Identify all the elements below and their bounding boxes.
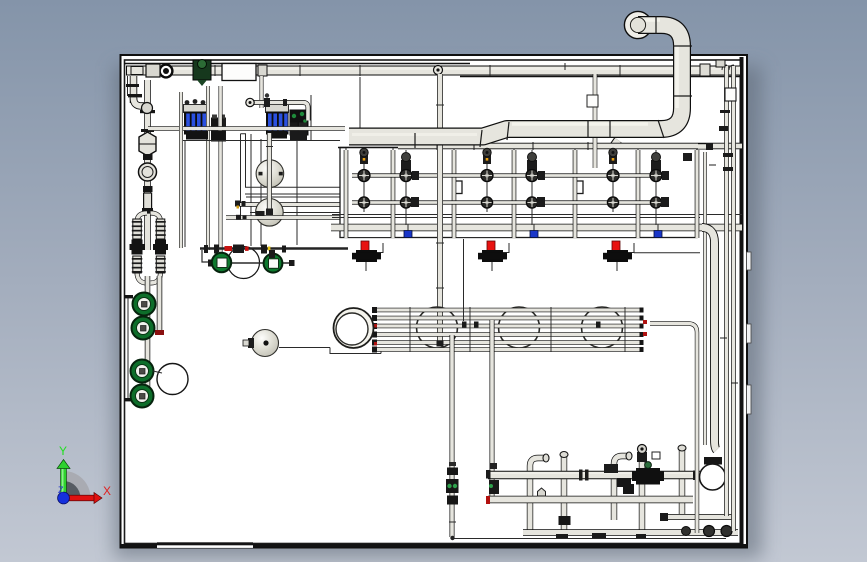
svg-text:X: X (103, 484, 111, 498)
dark dashes along bottom run (556, 513, 668, 538)
red-top black valves below frame (352, 241, 700, 271)
plate inner border line (125, 60, 743, 544)
red X arrow (64, 493, 103, 504)
plate bottom edge thick line (121, 544, 747, 547)
wire: thin bottom line (452, 538, 726, 540)
small box near x595 (587, 95, 598, 107)
pipe: vertical x734.5 (731, 66, 736, 531)
sphere S2 (256, 199, 284, 227)
valve top stack (360, 155, 368, 164)
wire: long thin pipe in front of manifolds (148, 126, 345, 131)
white junction box on top run (222, 64, 256, 81)
seam ticks right columns (709, 165, 738, 383)
pipe: vertical x614 with elbow top (614, 456, 628, 520)
svg-text:Y: Y (59, 444, 67, 458)
pipe: vertical feeds down from top run (206, 86, 210, 250)
pipe: bottom run H3 (523, 529, 738, 535)
pipe: top rail (338, 147, 400, 149)
elbow into left border (134, 98, 150, 106)
stub from P3 to T1 (153, 371, 162, 373)
wire from S3 to bundle (279, 347, 330, 349)
wire: seams on top run (215, 63, 620, 76)
gray sector dark (64, 481, 81, 498)
pipe: horizontal H1 (488, 471, 700, 479)
pipe: lower rail thick (331, 224, 742, 232)
seam ticks on tubes (410, 307, 625, 352)
six bundle tubes (375, 310, 641, 350)
round valve V2 on left vertical (139, 163, 157, 181)
bottom border step (157, 542, 253, 545)
dark cylinder pair right of M1 (211, 115, 226, 142)
pipe: y204 (240, 202, 346, 206)
pipe: lower rail thin (332, 214, 742, 216)
small stub under big pipe (611, 140, 618, 150)
coil circles (417, 307, 458, 348)
fitting bottom of x564 (559, 516, 571, 525)
pump green cluster G0 on top run (193, 60, 211, 87)
pipe: vertical x594 (593, 74, 598, 168)
section 1 valves (352, 148, 668, 225)
green Y arrow (57, 460, 70, 499)
pipe: left long vertical (144, 80, 151, 250)
pipe: vertical through spheres (267, 133, 272, 212)
valve fittings left ends (235, 201, 247, 220)
valve above PP2 (269, 250, 275, 258)
valve stack on x452 (446, 468, 459, 505)
pipe: horizontal H2 (488, 496, 693, 504)
pipe: verticals through green pump column (145, 276, 151, 401)
wire: top rail thin line (124, 63, 470, 65)
green pump P4 (131, 385, 154, 408)
H1 right end cap (693, 471, 699, 481)
pipe: vertical x642 with valve top (639, 462, 645, 533)
green pump P2 (132, 317, 155, 340)
wire: vertical x360 (359, 77, 361, 144)
dark rows below pipe (186, 131, 208, 140)
green pump PP2 (264, 254, 283, 273)
base plate (121, 55, 748, 548)
pipe: vertical x492 (490, 320, 495, 500)
pipe: M2 feed assembly (250, 103, 308, 121)
fittings on feed (264, 98, 270, 107)
small fitting on H2 (538, 488, 546, 496)
green pump P3 (131, 360, 154, 383)
pipe: y217.5 through S2 (226, 215, 346, 220)
flange F1 on top run (158, 63, 173, 78)
box left-edge notches (453, 181, 462, 194)
ring flange left of bundle (334, 308, 374, 348)
stubs to blue squares (407, 224, 409, 231)
blue Z origin ball (58, 492, 70, 504)
plate drop shadow (114, 66, 762, 558)
dark valves mid-loop (132, 240, 143, 255)
dark elbow valve between H1/H2 (617, 478, 631, 487)
svg-text:Z: Z (58, 485, 64, 495)
pipe: top horizontal run (126, 66, 740, 76)
pipe: bundle line elbow down x697 (650, 324, 697, 534)
small sphere S3 with line (252, 330, 279, 357)
fitting cluster left of F1 (146, 64, 160, 77)
pump circle PR (700, 464, 726, 490)
pipe: wide vertical x714 from rail elbow to pump (702, 228, 717, 451)
wire seams on x440 (436, 104, 444, 106)
right edge notch tabs (747, 324, 752, 343)
yellow accent (268, 247, 271, 251)
pipe: vertical x564 (561, 456, 567, 533)
top-right small components (725, 88, 736, 101)
gray sector light (64, 471, 91, 498)
pipe: vertical x682 (679, 450, 685, 517)
pipe: long vertical x440 (437, 74, 443, 344)
wire: small line left of pumps (127, 298, 129, 400)
big pipe: flange + elbows + vertical + long run to left (57, 11, 738, 540)
section 2 valves (481, 148, 545, 225)
flange above pump circle (704, 457, 722, 465)
wires: thin pipes to frame (240, 134, 242, 217)
red dots right end (643, 320, 647, 324)
valve with handwheel at top of x642 (637, 452, 647, 462)
dark fitting on H1 right (604, 464, 618, 473)
green pump P1 (133, 293, 156, 316)
fittings on assembly line (204, 245, 286, 254)
pipe: vertical x723.5 (724, 66, 729, 516)
flange marks on H1 (579, 470, 583, 481)
open circle between pumps (228, 247, 260, 279)
weld seams on big pipe (415, 16, 692, 148)
blue manifold M2 (266, 105, 289, 135)
plate right edge dark bar (740, 57, 744, 546)
wire: thin assembly line (200, 247, 348, 249)
L-connector left (202, 250, 212, 262)
handwheels row2 (358, 197, 369, 208)
small fittings right of box (258, 65, 267, 76)
pipe: H4 (660, 514, 734, 520)
green pump PP1 (212, 253, 231, 272)
open circle tank T1 (157, 364, 188, 395)
blue squares on lower rail (404, 231, 412, 238)
dark caps bottom (704, 526, 715, 537)
elbow tops curving left (722, 65, 734, 70)
flange dashes on left verticals (126, 84, 155, 132)
pipe: thin vertical x705 (703, 152, 707, 445)
hex valve V1 on left vertical (139, 132, 156, 156)
cap on elbow (543, 454, 549, 462)
frame vertical pipes (346, 150, 697, 238)
end caps (372, 307, 644, 353)
dark X-valve on H1 (632, 462, 664, 485)
frame boxes (340, 148, 697, 238)
wires: verticals from manifolds down (184, 140, 186, 247)
wire: vertical x463 rail to bundle (463, 239, 465, 321)
flange circle on feed (246, 98, 254, 106)
dark/green cluster right of M2 (290, 110, 309, 137)
section 3 valves (607, 148, 669, 225)
wire: line under manifold rows (183, 140, 340, 142)
pipe: stub into frame rail (698, 144, 712, 150)
pipe: vertical x452 (450, 335, 455, 537)
red cap left ends (486, 470, 491, 479)
pipe segment below V2 (144, 193, 152, 213)
handwheels row1 (358, 170, 370, 182)
red accents (225, 246, 233, 251)
wire: pump shaft line (210, 262, 293, 264)
pipe: left vertical upper (130, 76, 138, 103)
pipe: vertical x530 with elbow top (530, 458, 545, 533)
sphere S1 (256, 160, 284, 188)
fittings near right end of top run (700, 64, 710, 76)
blue manifold M1 (184, 99, 210, 134)
ribbed flex-loop (left U) (130, 213, 169, 283)
valve on x492 (489, 480, 499, 494)
elbow fitting at (147,107) (142, 103, 153, 114)
